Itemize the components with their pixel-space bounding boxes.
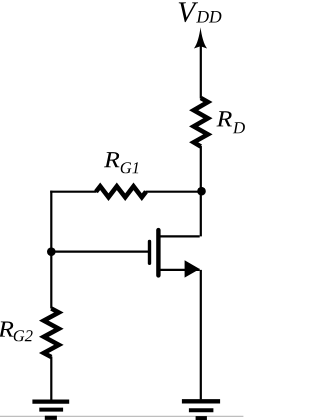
wire: RG1 horizontal line right part — [146, 191, 202, 193]
wire: gate wire — [51, 251, 148, 253]
label RG1 — [104, 152, 138, 173]
resistor RD — [194, 98, 208, 147]
transistor M1 channel bar — [156, 230, 160, 275]
label RG2 — [0, 322, 33, 342]
wire: RG2 to ground — [50, 357, 52, 400]
VDD arrow — [194, 27, 207, 98]
resistor RG2 — [44, 309, 59, 358]
wire: source lead — [158, 269, 199, 271]
wire: source down to ground — [200, 270, 202, 400]
node junction dot left — [47, 247, 56, 256]
node junction dot right — [197, 187, 206, 196]
wire: right rail RD bottom to drain corner — [200, 146, 202, 236]
label VDD — [179, 2, 222, 22]
wire: arrow shaft — [200, 44, 202, 99]
transistor source arrowhead — [185, 260, 200, 277]
transistor M1 gate bar — [148, 242, 151, 264]
label RD — [217, 111, 245, 133]
wire: left rail from RG1 corner down to RG2 — [50, 191, 52, 309]
frame border bottom — [0, 415, 243, 417]
frame border right — [242, 1, 244, 416]
ground left — [32, 402, 69, 418]
ground right — [182, 401, 220, 418]
wire: drain lead — [158, 235, 199, 237]
wire: RG1 horizontal line left part — [50, 191, 96, 193]
resistor RG1 — [96, 186, 146, 197]
